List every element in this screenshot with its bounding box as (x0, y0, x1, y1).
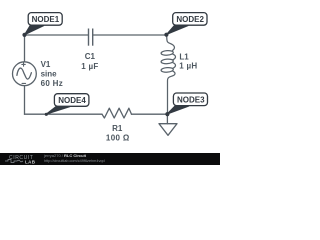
svg-text:100 Ω: 100 Ω (106, 134, 130, 143)
svg-text:1 µH: 1 µH (179, 61, 197, 70)
wire left vertical upper (node1 to V1 top) (24, 35, 26, 62)
wire bottom-left to resistor (25, 113, 103, 115)
svg-text:1 µF: 1 µF (81, 62, 98, 71)
svg-text:V1: V1 (41, 60, 51, 69)
R1 value labels (106, 124, 130, 143)
wire ground stub (166, 114, 168, 124)
junction dot NODE2 (164, 33, 168, 37)
junction dot NODE4 (45, 113, 48, 116)
wire capacitor to top-right corner (93, 34, 166, 36)
inductor L1 (161, 35, 176, 114)
resistor R1 (102, 108, 132, 118)
svg-text:NODE4: NODE4 (58, 96, 86, 105)
node NODE3 flag (167, 93, 208, 114)
svg-text:NODE1: NODE1 (32, 15, 60, 24)
svg-text:60 Hz: 60 Hz (41, 79, 63, 88)
node NODE4 flag (46, 94, 89, 115)
wire top-left to capacitor (25, 34, 89, 36)
wire left vertical lower (V1 bottom to node4 corner) (24, 86, 26, 115)
L1 value labels (179, 52, 197, 70)
V1 value labels (41, 60, 63, 88)
voltage source V1 (13, 62, 37, 86)
junction dot NODE3 (165, 112, 169, 116)
junction dot NODE1 (22, 33, 26, 37)
watermark bar (0, 153, 220, 165)
svg-text:C1: C1 (85, 52, 96, 61)
svg-text:R1: R1 (112, 124, 123, 133)
svg-text:sine: sine (41, 69, 58, 78)
svg-text:L1: L1 (179, 52, 189, 61)
svg-text:http://circuitlab.com/c49f6zeh: http://circuitlab.com/c49f6zehm4vqd (44, 159, 105, 163)
node NODE2 flag (166, 13, 207, 35)
capacitor C1 (89, 29, 93, 46)
wire resistor to bottom-right junction (132, 113, 168, 115)
watermark logo wave (5, 160, 23, 163)
svg-text:jerrya270 / RLC Circuit: jerrya270 / RLC Circuit (43, 153, 87, 158)
svg-text:NODE3: NODE3 (177, 95, 205, 104)
svg-text:NODE2: NODE2 (176, 15, 204, 24)
C1 value labels (81, 52, 98, 71)
ground (159, 124, 177, 136)
svg-text:LAB: LAB (25, 159, 36, 164)
node NODE1 flag (25, 13, 63, 35)
